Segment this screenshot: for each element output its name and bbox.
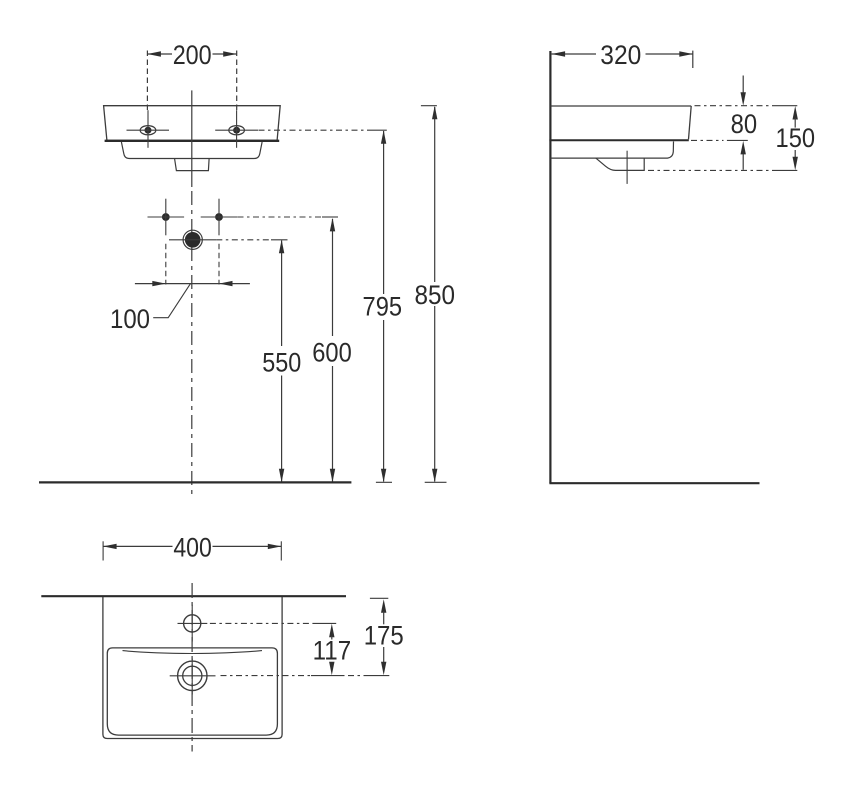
svg-text:200: 200: [173, 40, 212, 70]
basin outer outline (top view): [103, 597, 282, 739]
dimension 100 leader: [153, 284, 190, 318]
svg-text:550: 550: [262, 347, 301, 377]
drain (top view): [178, 661, 207, 690]
faucet hole right (front): [229, 126, 245, 135]
dotted projection drain to dim 550: [216, 239, 271, 241]
basin profile right edge (side): [689, 106, 692, 139]
dimension 200 arrowhead left: [147, 51, 161, 56]
floor line (front view): [39, 481, 351, 483]
dimension 200 arrowhead right: [223, 51, 237, 56]
svg-text:400: 400: [173, 533, 212, 563]
bowl outline (top view): [107, 648, 277, 735]
dim 400 extension line left: [102, 541, 104, 560]
basin rim outline (front): [104, 106, 281, 141]
basin underside with step (side): [550, 142, 673, 159]
dotted projection drain to dim 175: [221, 675, 312, 677]
mounting bolt right: [215, 213, 223, 221]
dim 200 extension line right (dashed): [236, 51, 238, 111]
dim 400 extension line right: [280, 541, 282, 560]
dotted projection bolts to dim 600: [238, 216, 323, 218]
faucet crosshair vertical (top view): [191, 605, 193, 642]
dimension 80 lower arrow (outside, pointing up): [741, 141, 746, 155]
dimension 850 floor tick: [425, 481, 447, 483]
svg-text:850: 850: [415, 280, 456, 310]
svg-text:100: 100: [110, 304, 150, 334]
faucet hole left (front): [140, 126, 156, 135]
dimension 175 line: [381, 599, 386, 613]
dimension 550 line: [281, 241, 283, 347]
centerline (front, dash-dot to floor): [191, 191, 193, 497]
drain crosshair vertical (top view): [191, 659, 193, 695]
dimension 200 line: [147, 53, 172, 55]
centerline (top view): [191, 583, 193, 752]
dim 100 extension line right (dashed): [218, 244, 220, 285]
floor line (side view): [549, 482, 759, 484]
dotted projection rim top to dim 150: [695, 105, 778, 107]
dotted projection trap bottom to dim 150: [648, 169, 776, 171]
dimension 100 arrowhead left (outside, pointing right): [152, 281, 166, 286]
svg-text:175: 175: [364, 620, 404, 650]
dimension 320 line: [552, 53, 596, 55]
rim bottom thick line (front): [105, 140, 280, 142]
faucet hole (top view): [184, 615, 201, 632]
dimension 400 line: [103, 545, 172, 547]
dimension 100 line: [135, 283, 250, 285]
dimension 117 line: [329, 624, 334, 638]
dimension 850 line: [434, 107, 436, 282]
centerline (front, solid upper part): [191, 90, 193, 187]
wall line (side view): [549, 51, 551, 483]
dotted projection faucet to dim 117: [210, 622, 314, 624]
bowl inner ledge curve (top view): [123, 651, 263, 654]
basin profile top (side): [550, 105, 691, 107]
svg-text:150: 150: [776, 123, 816, 153]
dim 100 extension line left (dashed): [165, 244, 167, 285]
dimension 320 extension line right: [692, 51, 694, 68]
svg-text:600: 600: [312, 337, 352, 367]
svg-text:795: 795: [363, 292, 403, 322]
dimension 850 top tick: [421, 105, 437, 107]
dimension 80 upper arrow (outside, pointing down): [742, 76, 744, 94]
dimension 795 floor tick: [376, 481, 392, 483]
drain trap (front): [175, 159, 210, 171]
drain centerline (side): [626, 151, 628, 184]
basin body (front): [121, 142, 262, 159]
dimension 100 arrowhead right (outside, pointing left): [219, 281, 233, 286]
dotted projection rim bottom to dim 80: [691, 139, 724, 141]
dim 200 extension line left (dashed): [146, 51, 148, 111]
svg-text:80: 80: [731, 109, 758, 139]
dotted projection faucet holes to dim 795: [259, 129, 369, 131]
svg-text:117: 117: [313, 636, 352, 666]
dimension 795 line: [383, 131, 385, 294]
dimension 150 line: [793, 106, 798, 120]
mounting bolt left: [162, 213, 170, 221]
dimension 175 wall tick: [370, 597, 388, 599]
rim bottom thick line (side): [549, 139, 688, 141]
drain hole (front): [183, 230, 202, 249]
dimension 600 line: [332, 219, 334, 336]
svg-text:320: 320: [600, 40, 641, 70]
wall line (top view): [41, 595, 346, 597]
drain trap (side): [596, 158, 644, 170]
